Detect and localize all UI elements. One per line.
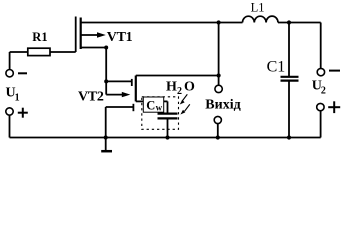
- svg-text:VT1: VT1: [107, 30, 133, 45]
- svg-text:C: C: [146, 99, 155, 113]
- svg-text:Вихід: Вихід: [205, 97, 240, 112]
- svg-text:1: 1: [15, 92, 20, 103]
- svg-text:H: H: [166, 80, 177, 95]
- svg-text:O: O: [184, 80, 195, 95]
- svg-text:2: 2: [321, 85, 326, 96]
- svg-text:R1: R1: [32, 30, 47, 44]
- svg-text:2: 2: [177, 86, 182, 97]
- svg-text:L1: L1: [251, 1, 265, 15]
- svg-text:VT2: VT2: [78, 90, 104, 105]
- svg-text:w: w: [156, 103, 163, 113]
- svg-text:C1: C1: [267, 59, 286, 76]
